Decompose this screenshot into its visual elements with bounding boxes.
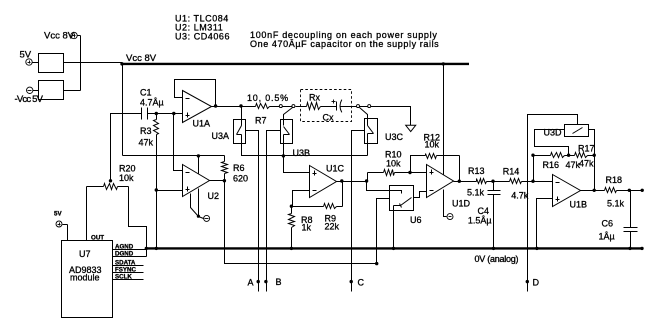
pin SDATA	[113, 265, 144, 267]
junction: U2 V- stub	[197, 215, 200, 218]
junction: R18/C6	[628, 189, 631, 192]
wire: U2 output	[210, 180, 225, 182]
svg-text:FSYNC: FSYNC	[115, 267, 137, 274]
svg-text:22k: 22k	[325, 222, 340, 232]
analog switch U6	[390, 186, 414, 211]
junction: R20 tap	[109, 179, 112, 182]
junction: R13/C4	[491, 180, 494, 183]
svg-text:AGND: AGND	[115, 244, 134, 251]
svg-text:module: module	[70, 273, 100, 283]
junction: Vcc rail at R12/U1D supply	[442, 62, 445, 65]
power terminal +5V	[26, 59, 32, 65]
wire: U1A feedback loop	[175, 80, 216, 107]
resistor R7	[256, 104, 270, 109]
svg-text:Cx: Cx	[323, 113, 334, 123]
op-amp U2 (LM311)	[183, 165, 210, 197]
svg-text:4.7Âµ: 4.7Âµ	[140, 98, 164, 108]
junction: U1B output	[593, 189, 596, 192]
wire: OUT pin up	[86, 187, 88, 241]
pin FSYNC	[113, 272, 144, 274]
svg-text:620: 620	[233, 174, 248, 184]
junction: R8 at 0V rail	[290, 247, 293, 250]
wire: R20 right to 0V	[129, 187, 147, 257]
resistor R17	[575, 153, 588, 158]
wire: U1A + node down to U2 - input	[174, 114, 183, 171]
node C	[350, 280, 353, 283]
junction: U2 + input	[155, 188, 158, 191]
junction: R14/R16 branch	[531, 180, 534, 183]
svg-text:C6: C6	[602, 219, 614, 229]
DC-DC converter module (5V to Vcc 8V)	[39, 54, 64, 73]
svg-text:47k: 47k	[139, 138, 154, 148]
svg-text:R3: R3	[140, 126, 152, 136]
junction: U1D output	[458, 180, 461, 183]
wire: U3D left pin to R16/R17 junction	[535, 130, 569, 156]
svg-text:Vcc 8V: Vcc 8V	[126, 53, 157, 64]
svg-text:SDATA: SDATA	[115, 260, 136, 267]
junction: R10/R12/U1D +	[408, 171, 411, 174]
contact circle right (R7 side)	[292, 105, 295, 108]
wire: C1 to U1A non-inverting input	[148, 113, 183, 115]
capacitor C4	[493, 182, 495, 191]
op-amp U1C	[310, 166, 337, 198]
junction: R16 left	[531, 154, 534, 157]
svg-text:R18: R18	[606, 175, 623, 185]
wire: U3A bottom pin to switch bus	[242, 135, 368, 156]
junction: U1B + at 0V rail	[535, 247, 538, 250]
svg-text:10k: 10k	[386, 159, 401, 169]
junction: U2 V+ tap	[197, 154, 200, 157]
junction: Vcc rail left	[120, 62, 123, 65]
resistor R16	[551, 153, 565, 158]
wire: 5V into module	[67, 225, 69, 241]
svg-text:R14: R14	[503, 167, 520, 177]
wire: U3D right pin to R17 right	[589, 130, 595, 156]
wire: R3 node to U2 + input	[157, 190, 183, 192]
terminal: U2 negative supply	[204, 215, 210, 221]
junction: R3 top	[155, 112, 158, 115]
pin DGND	[113, 256, 147, 258]
svg-text:1.5Âµ: 1.5Âµ	[468, 216, 492, 226]
resistor Rx	[307, 103, 321, 110]
wire: U2 output down and under 0V rail	[225, 181, 377, 264]
svg-text:U1A: U1A	[193, 119, 211, 129]
wire: U1D output	[454, 181, 460, 183]
wire: U1D V- pin	[444, 190, 447, 217]
analog switch U3C	[365, 119, 378, 144]
capacitor C6	[630, 191, 632, 228]
contact circle right (Cx side)	[368, 105, 371, 108]
node B	[264, 280, 267, 283]
svg-text:1Âµ: 1Âµ	[599, 232, 615, 242]
Vcc 8V rail (thick)	[121, 63, 469, 65]
wire: U1B output	[581, 190, 605, 192]
wire: R12 down to U1D output	[459, 156, 461, 182]
wire: U3C bottom pin	[367, 134, 369, 156]
junction: U2 output/R6	[223, 179, 226, 182]
0V analog rail (thick)	[146, 247, 644, 249]
resistor R3	[154, 120, 159, 135]
DC-DC converter module (-Vcc 5V)	[39, 81, 64, 100]
svg-text:U3B: U3B	[293, 148, 311, 158]
junction: C4 at 0V rail	[492, 247, 495, 250]
wire: output stub	[630, 190, 643, 192]
svg-text:B: B	[276, 277, 282, 287]
wire: U2 V- pin	[191, 194, 199, 217]
resistor R6 (pull-up)	[222, 162, 228, 174]
svg-text:One 470ÂµF capacitor on the su: One 470ÂµF capacitor on the supply rails	[250, 39, 439, 49]
junction: R17 right	[593, 154, 596, 157]
svg-text:10, 0.5%: 10, 0.5%	[247, 93, 289, 103]
svg-text:U3A: U3A	[212, 131, 230, 141]
resistor R14	[510, 179, 522, 184]
wire: U3B bottom pin	[283, 135, 285, 156]
svg-text:R20: R20	[119, 164, 136, 174]
pin SCLK	[113, 279, 144, 281]
op-amp U1A	[183, 91, 212, 123]
junction: U2 inverting branch	[172, 112, 175, 115]
wire: R14 node to U1B - input	[534, 181, 553, 183]
junction: output end	[641, 189, 644, 192]
power terminal 5V (module)	[56, 221, 62, 227]
wire: U3C control to node C	[352, 131, 365, 292]
svg-text:D: D	[533, 278, 540, 288]
junction: 0V rail end	[640, 247, 643, 250]
svg-text:U1C: U1C	[326, 164, 345, 174]
node D	[526, 280, 529, 283]
wire: up to U6 control pin	[377, 199, 390, 264]
svg-text:C1: C1	[140, 88, 152, 98]
module U7 box	[62, 241, 113, 318]
wire: U6 bottom pin to 0V	[393, 206, 395, 249]
resistor R20	[104, 184, 118, 190]
svg-text:4.7k: 4.7k	[511, 190, 529, 200]
resistor R9 (feedback)	[324, 204, 337, 209]
dashed box (Rx Cx network)	[301, 90, 352, 122]
svg-text:U3: CD4066: U3: CD4066	[175, 32, 230, 42]
junction: U3B bottom pin	[282, 154, 285, 157]
wire: converter output to Vcc rail	[64, 62, 123, 64]
junction: U1A output to U3A	[239, 104, 242, 107]
svg-text:C: C	[358, 278, 365, 288]
pin AGND	[113, 249, 146, 251]
wire: hysteresis node up	[411, 156, 421, 173]
wire: U1A output	[212, 106, 242, 108]
svg-text:10k: 10k	[119, 173, 134, 183]
terminal: U1D negative supply	[447, 214, 453, 220]
svg-text:5V: 5V	[54, 211, 62, 218]
svg-text:U6: U6	[410, 215, 422, 225]
wire: U3B node down to U1C + input	[284, 156, 310, 173]
svg-text:C4: C4	[478, 206, 490, 216]
junction: R8/R9 node	[290, 205, 293, 208]
svg-text:U2: U2	[208, 191, 220, 201]
power terminal Vcc 8V (top)	[71, 32, 77, 38]
wire: U3A control to node A	[246, 131, 259, 292]
analog switch U3D	[565, 125, 589, 137]
analog switch U3B	[281, 120, 293, 144]
power terminal -Vcc	[27, 87, 33, 93]
junction: U6 at 0V rail	[392, 247, 395, 250]
op-amp U1D	[427, 165, 454, 198]
capacitor Cx polarity +	[332, 101, 336, 103]
wire: between contacts	[283, 106, 292, 108]
wire: switch blade into U3B	[284, 108, 293, 126]
wire: Vcc rail down to U2 supply line	[122, 64, 124, 156]
junction: U1C output/R9	[340, 179, 343, 182]
junction: C6 at 0V rail	[628, 247, 631, 250]
contact circle left (Cx side)	[357, 105, 360, 108]
svg-text:1k: 1k	[302, 223, 312, 233]
svg-text:R17: R17	[578, 144, 595, 154]
svg-text:A: A	[248, 278, 254, 288]
wire: Vcc down to U1D V+ pin	[443, 64, 445, 175]
wire: Vcc feed line to R6	[123, 155, 225, 157]
wire: Vcc 8V top terminal drop	[80, 36, 82, 91]
svg-text:0V (analog): 0V (analog)	[475, 254, 519, 264]
svg-text:SCLK: SCLK	[115, 274, 132, 281]
svg-text:U1D: U1D	[452, 199, 471, 209]
analog switch U3A	[234, 120, 246, 144]
wire: U2 V+ pin	[198, 156, 200, 174]
resistor R18	[605, 188, 617, 193]
wire: Cx to contact	[341, 106, 357, 108]
svg-text:10k: 10k	[425, 140, 440, 150]
wire: between Cx contacts	[360, 106, 368, 108]
wire: up to R16	[533, 156, 535, 182]
wire: U6 output to U1D - input	[414, 192, 427, 198]
wire: node D up and over to U3D control	[528, 115, 578, 292]
svg-text:5.1k: 5.1k	[607, 199, 625, 209]
wire: R20 tap up to C1	[111, 114, 142, 181]
capacitor C1	[141, 108, 143, 120]
wire: U1C output down to U6	[367, 182, 390, 191]
resistor R12	[426, 154, 437, 159]
capacitor Cx	[336, 102, 338, 111]
svg-text:U1B: U1B	[570, 200, 588, 210]
junction: under-rail line to U6 control	[375, 262, 378, 265]
wire: U1B + input to 0V	[537, 199, 553, 249]
contact circle left (R7 side)	[279, 105, 282, 108]
resistor R10	[384, 170, 395, 176]
open arrow (to 0V)	[406, 125, 416, 131]
svg-text:R7: R7	[255, 116, 267, 126]
wire: U1C output	[337, 181, 367, 183]
wire: R3 node down to 0V	[156, 191, 158, 249]
junction: R3 node at 0V rail	[155, 247, 158, 250]
junction: DGND/R20 at 0V rail	[145, 247, 148, 250]
svg-text:U3C: U3C	[385, 132, 404, 142]
svg-text:R16: R16	[543, 160, 560, 170]
svg-text:5.1k: 5.1k	[467, 188, 485, 198]
wire: R17 right down to U1B output	[594, 156, 596, 191]
svg-text:U7: U7	[79, 249, 91, 259]
svg-text:R6: R6	[233, 163, 245, 173]
wire: U1A output into U3A	[241, 107, 243, 120]
wire: R9 up to U1C output	[342, 182, 344, 207]
wire: switch blade into U3C	[360, 108, 368, 126]
junction: U1A feedback/output	[214, 104, 217, 107]
wire: U1C - input loop	[293, 191, 310, 207]
svg-text:OUT: OUT	[91, 235, 104, 242]
wire: -Vcc converter to terminal drop	[64, 90, 81, 92]
op-amp U1B	[553, 175, 581, 207]
svg-text:-Vcc 5V: -Vcc 5V	[15, 94, 44, 105]
resistor R13	[477, 179, 487, 184]
resistor R8	[289, 214, 295, 228]
wire: R10 left leg	[367, 173, 369, 182]
svg-text:DGND: DGND	[115, 251, 134, 258]
svg-text:Vcc 8V: Vcc 8V	[44, 31, 75, 42]
wire: U3B control to node B	[267, 131, 281, 292]
svg-text:47k: 47k	[579, 159, 594, 169]
node A	[257, 280, 260, 283]
svg-text:R13: R13	[468, 166, 485, 176]
junction: U1C output node	[365, 179, 368, 182]
wire: contact to open arrow	[371, 107, 411, 127]
junction: R16/R17	[567, 154, 570, 157]
svg-text:Rx: Rx	[309, 93, 320, 103]
